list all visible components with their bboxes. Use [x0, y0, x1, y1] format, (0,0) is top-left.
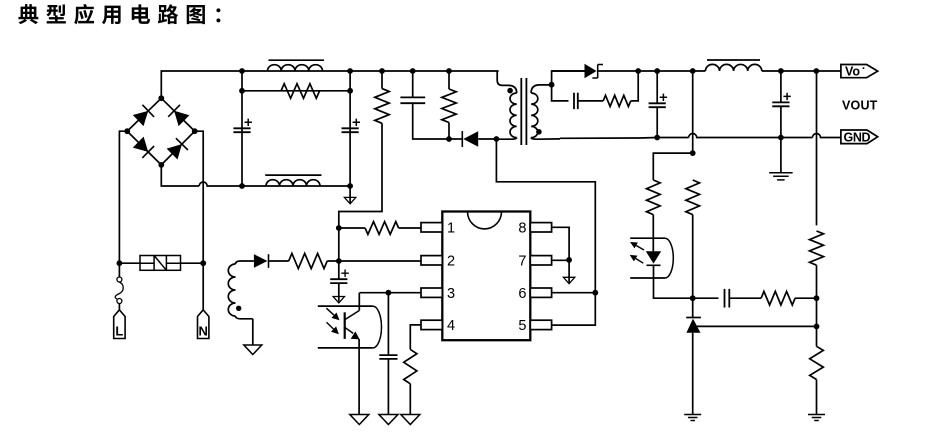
wire left EMI branch — [241, 71, 243, 186]
node top rail / C2 — [347, 68, 353, 74]
svg-text:L: L — [115, 324, 123, 339]
resistor R11 (aux series) — [289, 253, 328, 268]
svg-text:4: 4 — [447, 318, 455, 334]
node lower rail / C1 — [239, 183, 245, 189]
node output rail / divider feed — [690, 68, 696, 74]
svg-text:VOUT: VOUT — [842, 98, 878, 112]
wire pin3 row — [360, 292, 422, 294]
pin 8 stub — [530, 223, 551, 232]
node R1 left — [239, 88, 245, 94]
pin 7 stub — [530, 256, 551, 265]
wire R9 to ground — [816, 380, 818, 415]
node pin7 — [566, 257, 572, 263]
bridge rectifier diode D4 (bottom-right edge, pointing to right node) — [161, 131, 194, 165]
resistor R6 (bias) — [686, 180, 700, 215]
resistor R9 (feedback divider lower) — [810, 346, 824, 379]
capacitor C4 (secondary snubber) — [574, 93, 578, 109]
node output rail / C5 — [654, 68, 660, 74]
node bridge right (AC) — [192, 128, 198, 134]
wire right divider from top rail — [816, 71, 818, 225]
optocoupler U2 LED — [646, 251, 661, 263]
optocoupler U2 light arrow 1 — [326, 308, 334, 315]
node R1 right — [347, 88, 353, 94]
node top rail / C1 — [239, 68, 245, 74]
wire pin8 to pin7 junction — [551, 227, 569, 260]
wire lower rail between caps — [242, 185, 350, 187]
wire R6 down to TL431 cathode node — [692, 215, 694, 299]
wire secondary top to output rail — [552, 71, 585, 85]
wire split to left resistor — [653, 153, 692, 180]
wire C6 to ground — [780, 71, 782, 173]
node pin1/startup — [336, 225, 342, 231]
node secondary top junction — [549, 82, 555, 88]
transformer secondary phase dot — [536, 129, 542, 135]
wire C5 to gnd rail — [656, 71, 658, 138]
resistor R4 (secondary snubber) — [603, 95, 631, 106]
title text 典型应用电路图: — [18, 4, 38, 24]
resistor R10 (pin1 series) — [365, 222, 399, 235]
wire pin1 row — [339, 227, 365, 229]
node lower rail / C2 — [347, 183, 353, 189]
capacitor C5 (output electrolytic 1) — [649, 103, 666, 107]
wire clamp cap to diode row — [413, 103, 457, 139]
wire bridge right node to right leg — [195, 131, 204, 263]
node fuse row right — [200, 260, 206, 266]
resistor R12 (pin4 to ground) — [404, 349, 417, 383]
bridge rectifier diode D3 (left-bottom edge, pointing to bottom node) — [127, 131, 161, 165]
svg-text:2: 2 — [447, 254, 455, 270]
wire top rail from bridge to transformer primary — [161, 71, 498, 98]
capacitor C2 (bulk electrolytic right) — [342, 128, 359, 132]
wire pin1 node down to pin2 node — [338, 228, 340, 261]
bridge rectifier diode D2 (right-top edge, pointing to + top node) — [161, 98, 194, 131]
shunt regulator U3 (TL431 as zener symbol) — [692, 298, 694, 318]
optocoupler U2 light arrow 2 — [327, 322, 334, 329]
wire pin6 to drain line — [551, 292, 595, 294]
svg-text:GND: GND — [844, 130, 871, 144]
wire output gnd rail with hops — [560, 134, 841, 139]
wire R11 to pin2 — [327, 260, 421, 262]
wire secondary snubber branch — [552, 85, 569, 101]
wire fuse row L-N — [119, 262, 203, 264]
wire R7 to divider tap — [795, 297, 816, 299]
svg-text:1: 1 — [447, 221, 455, 237]
resistor R7 (compensation) — [761, 291, 795, 305]
node output rail / right divider — [813, 68, 819, 74]
ground earth below R9 — [808, 415, 825, 421]
ground arrow below opto emitter — [350, 415, 369, 425]
aux winding phase dot — [236, 306, 241, 311]
node pin2/aux — [336, 258, 342, 264]
wire divider feed down with hop at gnd rail — [692, 71, 694, 153]
wire R8 to tap — [816, 265, 818, 346]
capacitor C8 (Vcc electrolytic) — [338, 261, 340, 279]
wire clamp resistor bottom — [448, 123, 450, 140]
op-amp/controller IC U1 body — [442, 212, 530, 341]
wire startup branch from top rail — [381, 71, 383, 89]
bridge rectifier diode D1 (left-top edge, pointing to + top node) — [127, 98, 161, 131]
wire clamp resistor branch top — [448, 71, 450, 89]
node top rail / R2 — [379, 68, 385, 74]
wire snubber cap to resistor — [578, 100, 603, 102]
wire primary bottom to clamp — [457, 138, 463, 140]
ground arrow below C9 — [379, 415, 398, 425]
wire C7 to R7 — [729, 297, 761, 299]
wire startup branch down and jog to pin1 node — [339, 123, 382, 228]
pin 4 stub — [421, 320, 442, 329]
resistor R8 (feedback divider upper) — [810, 231, 824, 265]
node bridge top (+) — [158, 95, 164, 101]
diode D5 (clamp, pointing left) — [461, 131, 463, 147]
node fuse row left — [117, 260, 123, 266]
transformer T1 secondary winding — [531, 85, 552, 93]
ground arrow below C2 node — [349, 186, 351, 203]
common-mode choke lower winding L1b — [266, 180, 320, 186]
wire TL431 ref to divider mid — [694, 325, 817, 327]
resistor R1 (parallel damping across choke) — [281, 84, 320, 99]
wire comp RC — [693, 297, 719, 299]
svg-text:5: 5 — [518, 318, 526, 334]
pin 1 stub — [421, 223, 442, 232]
resistor R5 (opto LED series) — [647, 180, 661, 215]
wire pin7 row — [551, 259, 569, 261]
capacitor C1 (bulk electrolytic left) — [233, 128, 250, 132]
node pin3 branch — [386, 290, 392, 296]
capacitor C3 (clamp) — [400, 97, 425, 103]
node divider tap / comp — [814, 295, 820, 301]
node snubber / output rail — [635, 68, 641, 74]
wire bridge bottom to lower rail with hop over N leg — [161, 165, 242, 186]
resistor R2 (startup, from HV rail) — [375, 89, 389, 124]
node divider feed split — [690, 150, 696, 156]
output choke L2 — [705, 64, 761, 71]
optocoupler U2 LED emission arrow 2 — [636, 259, 644, 264]
node drain / pin6 — [592, 290, 598, 296]
capacitor C7 (compensation) — [725, 289, 730, 308]
capacitor C6 (output electrolytic 2) — [772, 102, 789, 106]
node top rail / R3 — [446, 68, 452, 74]
wire pin7 ground stem — [568, 260, 570, 283]
wire right EMI branch — [349, 71, 351, 186]
fuse F1 on L leg — [118, 263, 120, 277]
wire aux winding to ground arrow — [252, 319, 254, 345]
terminal Vo (output) — [841, 65, 878, 78]
wire clamp cap branch — [412, 71, 414, 97]
optocoupler U2 phototransistor housing — [318, 306, 373, 348]
node clamp junction — [446, 136, 452, 142]
wire R10 to pin1 — [399, 227, 421, 229]
wire R12 to ground — [409, 384, 411, 415]
terminal L (line input) — [114, 310, 125, 339]
pin 3 stub — [421, 288, 442, 297]
capacitor C9 (pin3 filter) — [379, 355, 397, 359]
ground earth below C6 — [769, 173, 793, 180]
pin 6 stub — [530, 288, 551, 297]
wire bridge left node to left leg — [119, 131, 127, 263]
wire EMI resistor row — [242, 90, 350, 92]
diode D7 (aux rectifier) — [254, 254, 268, 268]
common-mode choke upper winding L1a — [268, 65, 323, 71]
node gnd rail / C6 — [778, 135, 784, 141]
svg-text:7: 7 — [518, 254, 526, 270]
wire snubber to output rail — [631, 71, 639, 101]
transformer primary phase dot — [507, 88, 513, 94]
node bridge bottom (-) — [158, 162, 164, 168]
pin 2 stub — [421, 256, 442, 265]
optocoupler U2 LED emission arrow 1 — [636, 246, 644, 251]
ground arrow below pin7 — [563, 277, 574, 283]
varistor/fuse box RV1 — [140, 256, 181, 271]
node top rail / C3 — [410, 68, 416, 74]
optocoupler U2 phototransistor — [344, 312, 346, 339]
node primary bottom junction — [494, 136, 500, 142]
ground arrow below aux winding — [244, 345, 262, 355]
svg-text:Vo: Vo — [845, 65, 860, 79]
svg-text:6: 6 — [518, 286, 526, 302]
wire opto emitter to ground — [358, 339, 360, 415]
pin 5 stub — [530, 320, 551, 329]
aux winding L3 — [236, 261, 254, 264]
resistor R3 (clamp) — [442, 89, 456, 123]
node output rail / C6 — [778, 68, 784, 74]
wire pin3 cap branch — [387, 293, 389, 355]
node bridge left (AC) — [124, 128, 130, 134]
svg-text:N: N — [199, 324, 208, 339]
wire LED cathode down — [654, 265, 693, 298]
terminal N (neutral input) — [198, 310, 209, 339]
ground earth below TL431 — [684, 415, 701, 421]
terminal GND (output ground) — [841, 130, 878, 144]
wire R5 to opto LED — [652, 215, 654, 252]
node divider tap / ref — [814, 324, 820, 330]
node TL431 cathode junction — [690, 295, 696, 301]
node gnd rail / C5 — [654, 135, 660, 141]
svg-text:8: 8 — [518, 221, 526, 237]
wire N leg to terminal — [202, 263, 204, 310]
wire output rail to Vo — [638, 70, 705, 72]
transformer core — [521, 78, 526, 145]
optocoupler U2 LED housing — [630, 238, 665, 278]
wire pin4 row — [410, 325, 421, 350]
ground arrow below R12 — [401, 415, 420, 425]
ground arrow below C8 — [333, 297, 344, 303]
svg-text:3: 3 — [447, 286, 455, 302]
wire output rail to Vo terminal — [762, 70, 841, 72]
diode D6 (output rectifier, Schottky) — [552, 70, 585, 72]
wire opto collector to pin3 — [358, 293, 360, 311]
wire primary bottom to IC drain pins 5-6 — [496, 139, 595, 325]
transformer T1 primary winding — [497, 71, 517, 93]
